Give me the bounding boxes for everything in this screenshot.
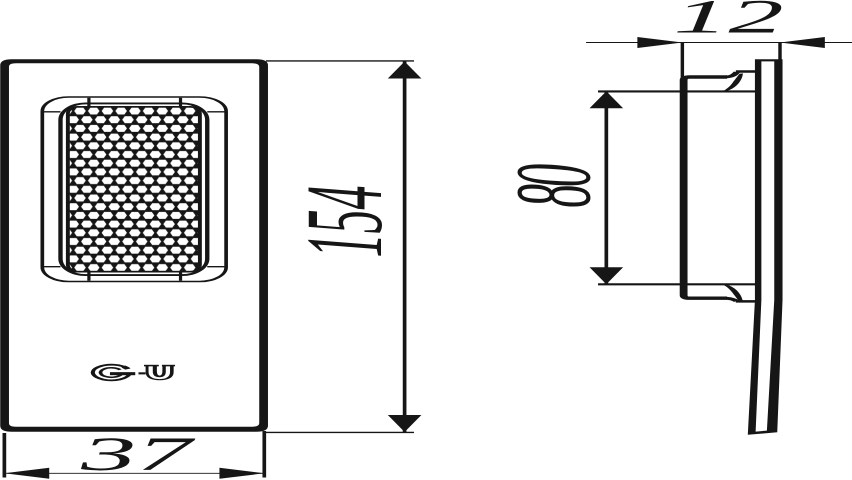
svg-text:12: 12: [673, 0, 783, 43]
svg-text:80: 80: [495, 164, 614, 207]
svg-text:37: 37: [80, 428, 196, 480]
svg-text:154: 154: [284, 186, 406, 258]
